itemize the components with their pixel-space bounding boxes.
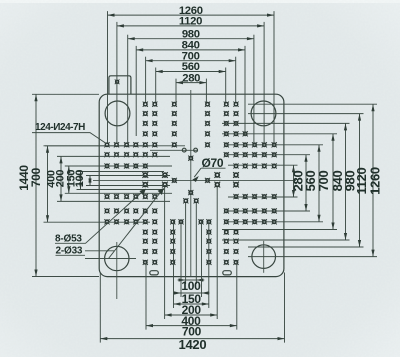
label 2-dia33 [56, 188, 164, 259]
lifting tab top-left [109, 76, 131, 94]
label 124-M24-7H thread holes [32, 122, 106, 144]
dim 980 top [128, 28, 254, 143]
dim 100 left [74, 170, 170, 188]
slot left of bottom edge [150, 271, 159, 275]
tie bar hole top-right [251, 101, 276, 126]
dim 400 bottom [165, 187, 218, 328]
dim 400 left [46, 156, 170, 201]
svg-text:700: 700 [316, 171, 331, 192]
svg-text:980: 980 [182, 28, 200, 40]
svg-text:1420: 1420 [179, 337, 207, 352]
dim 200 bottom [174, 221, 209, 317]
tie bar hole top-left [105, 101, 130, 126]
dim 700 left [29, 146, 150, 222]
centerline vertical [190, 90, 192, 276]
svg-text:700: 700 [29, 167, 43, 187]
tie bar hole bottom-right [252, 241, 276, 273]
dim 100 bottom [178, 203, 205, 293]
dim 560 right [226, 155, 318, 211]
svg-text:280: 280 [182, 72, 200, 84]
dim 560 top [156, 61, 226, 102]
dim 700 bottom [146, 262, 237, 339]
dim 1120 top [117, 16, 264, 143]
dim 150 bottom [173, 221, 210, 306]
platen plate outline [99, 94, 284, 276]
dim 700 top [146, 50, 236, 102]
svg-text:100: 100 [74, 170, 86, 188]
dim 280 top [176, 72, 206, 102]
dim 280 right [228, 165, 306, 197]
centerline horizontal [93, 179, 296, 181]
label 8-dia53 [55, 189, 146, 245]
svg-text:1120: 1120 [179, 16, 202, 28]
svg-text:100: 100 [181, 279, 201, 293]
mounting holes M24 grid [104, 102, 276, 265]
dim 980 right [222, 123, 358, 240]
dim 840 top [136, 40, 245, 136]
dim 150 left [65, 170, 164, 190]
dim 1420 bottom [100, 273, 284, 353]
label dia70 center hole [192, 156, 225, 182]
tab hole [115, 79, 120, 84]
dim 1440 left [17, 94, 99, 276]
dim 1120 right [248, 114, 369, 247]
8 holes dia 53 [142, 172, 239, 187]
line through dia33 pair [150, 149, 197, 151]
paper noise [0, 0, 1, 1]
line through hole row 145 left [45, 145, 185, 147]
dim 1260 right [248, 104, 383, 256]
dim 840 right [222, 134, 345, 230]
dim 200 left [54, 166, 172, 193]
svg-text:1260: 1260 [368, 167, 383, 195]
dim 700 right [226, 145, 331, 222]
2 holes dia 33 [182, 148, 197, 152]
tie bar hole bottom-left [85, 242, 136, 299]
svg-text:124-И24-7Н: 124-И24-7Н [35, 122, 85, 133]
slot right of bottom edge [223, 271, 232, 275]
white top scan strip [0, 0, 400, 3]
dim 1260 top [108, 5, 275, 143]
